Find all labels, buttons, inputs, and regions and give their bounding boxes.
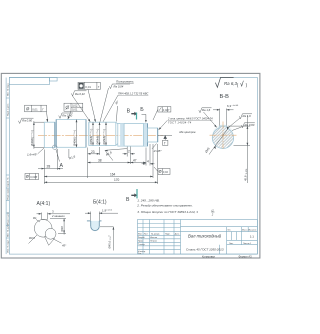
- runout frame bottom-right: [158, 169, 170, 175]
- svg-text:Г: Г: [164, 141, 166, 145]
- svg-text:Ra 0,80: Ra 0,80: [245, 123, 255, 127]
- svg-text:Инв. № дубл.: Инв. № дубл.: [6, 224, 9, 237]
- roughness mark Ra0,80 (left of S1): [18, 118, 33, 123]
- svg-text:Иванов: Иванов: [150, 237, 157, 239]
- svg-text:28: 28: [47, 164, 51, 168]
- datum flag G: [163, 135, 167, 139]
- centerline (main shaft axis): [38, 134, 163, 136]
- svg-text:Пров.: Пров.: [138, 241, 144, 243]
- svg-text:Вал тихоходный: Вал тихоходный: [188, 234, 222, 239]
- sheet outline (gray): [1, 73, 260, 258]
- technical requirements: [136, 198, 198, 214]
- chamfer band left on S4: [120, 124, 124, 147]
- roughness Ra1,6 (B-B right): [239, 114, 252, 119]
- general roughness (top-right corner): [215, 77, 233, 87]
- left margin strip: [5, 78, 7, 255]
- svg-text:1. 245...285 НВ.: 1. 245...285 НВ.: [137, 198, 159, 202]
- svg-text:Петров: Петров: [150, 241, 157, 243]
- left strip rotated labels: [6, 83, 9, 253]
- svg-text:Ø45,6₋₀,₂⁵: Ø45,6₋₀,₂⁵: [107, 235, 111, 248]
- svg-text:Подп.: Подп.: [165, 233, 171, 235]
- svg-text:2 отв. центр. А4/8,5 ГОСТ 1403: 2 отв. центр. А4/8,5 ГОСТ 14034-74: [167, 117, 213, 121]
- dim row 38 / 47: [88, 157, 146, 165]
- svg-text:Ra 0,80: Ra 0,80: [22, 119, 32, 123]
- tolerance frame B (cylindricity, S2): [64, 103, 83, 112]
- svg-text:1,9⁺⁰′⁰⁵: 1,9⁺⁰′⁰⁵: [102, 208, 113, 212]
- svg-text:Б: Б: [140, 107, 144, 113]
- svg-text:Копировал: Копировал: [202, 255, 215, 259]
- tolerance frame C (S3 top): [78, 82, 100, 89]
- svg-text:2. Резьбу обеспечивает инструм: 2. Резьбу обеспечивает инструмент.: [136, 203, 193, 207]
- chamfer transition S3/S4: [116, 122, 118, 124]
- dim 23 (row y153.8): [88, 147, 100, 178]
- detail B geometry (U-groove): [91, 221, 100, 231]
- svg-text:1:1: 1:1: [250, 234, 255, 238]
- B-B centerlines: [210, 134, 237, 136]
- svg-text:ПРН 40В 1,2 Т32 ГВ НВС: ПРН 40В 1,2 Т32 ГВ НВС: [118, 92, 148, 96]
- vertical dim 41,8 (B-B right): [228, 116, 250, 184]
- svg-text:170: 170: [114, 178, 120, 182]
- title block small header texts: [138, 229, 256, 255]
- svg-text:Масштаб: Масштаб: [249, 229, 257, 231]
- title block grid: [138, 220, 258, 255]
- dim 2 (groove B width): [123, 147, 136, 157]
- svg-text:164: 164: [110, 172, 116, 176]
- dim 164: [44, 144, 153, 178]
- diameter dim S2 (inside, rotated): [76, 120, 78, 148]
- svg-text:3. Общие допуски по ГОСТ 30893: 3. Общие допуски по ГОСТ 30893.1-h14, ±: [137, 210, 198, 214]
- svg-text:R1: R1: [33, 216, 37, 220]
- drawing frame (cyan inner border): [9, 78, 257, 255]
- svg-text:В: В: [126, 197, 130, 203]
- svg-text:2: 2: [128, 150, 130, 154]
- svg-text:Листов 1: Листов 1: [243, 243, 252, 245]
- svg-text:В: В: [127, 108, 131, 114]
- svg-text:Формат А3: Формат А3: [239, 255, 253, 259]
- detail A dims: [37, 213, 71, 220]
- svg-text:0,01: 0,01: [32, 107, 38, 111]
- svg-text:4: 4: [147, 160, 149, 164]
- shaft section S3: [89, 122, 116, 145]
- svg-text:Ra 1,6: Ra 1,6: [243, 114, 252, 118]
- svg-text:2 канавки: 2 канавки: [51, 214, 65, 218]
- roughness Ra0,80 (B-B lower right): [241, 123, 254, 128]
- tolerance frame D (right, S5): [158, 107, 171, 112]
- shaft step S4/S5: [147, 124, 149, 147]
- leader R1,6 (groove radius on S2): [68, 149, 70, 158]
- svg-text:Масса: Масса: [242, 229, 247, 231]
- svg-text:Инв. № подл.: Инв. № подл.: [6, 239, 9, 252]
- dim 170 (overall): [44, 144, 157, 184]
- svg-text:6,3⁻⁰′⁰⁹⁸: 6,3⁻⁰′⁰⁹⁸: [227, 104, 239, 108]
- svg-text:23: 23: [91, 150, 95, 154]
- dim 28 (below S1): [38, 149, 63, 170]
- detail A geometry (groove profile): [29, 220, 56, 246]
- svg-text:А: А: [60, 163, 64, 169]
- svg-text:Ra 0,04: Ra 0,04: [114, 84, 124, 88]
- svg-text:Ra 1,6: Ra 1,6: [202, 108, 211, 112]
- svg-text:Ø40k6(⁺⁰′⁰¹⁸): Ø40k6(⁺⁰′⁰¹⁸): [95, 129, 99, 145]
- svg-text:ГОСТ 14034-74: ГОСТ 14034-74: [168, 120, 192, 124]
- svg-text:В-В: В-В: [220, 94, 230, 100]
- svg-text:Перв. прим.: Перв. прим.: [7, 188, 9, 200]
- top-left stamp box: [9, 78, 49, 85]
- svg-text:Ra 0,32: Ra 0,32: [75, 92, 85, 96]
- svg-text:Подп. и дата: Подп. и дата: [7, 211, 9, 224]
- shaft section S5 (right end): [148, 128, 158, 142]
- diameter dim S1 (left, rotated): [34, 121, 44, 149]
- svg-text:Справ. №: Справ. №: [6, 177, 9, 187]
- roughness mark Ra0,32 with leader (S3): [71, 91, 86, 96]
- svg-text:R0,5: R0,5: [29, 236, 35, 240]
- svg-text:обе центров: обе центров: [179, 130, 196, 134]
- roughness Ra1,6 (B-B left): [199, 108, 212, 113]
- detail B dims: [85, 212, 118, 221]
- svg-text:Инв. № подл.: Инв. № подл.: [6, 83, 9, 96]
- B-B shaft cross-section circle with hatch: [210, 122, 237, 149]
- svg-text:Б(4:1): Б(4:1): [93, 199, 107, 205]
- svg-text:Т.контр.: Т.контр.: [138, 244, 146, 246]
- svg-text:Ø40k6(⁺⁰′⁰¹⁸): Ø40k6(⁺⁰′⁰¹⁸): [72, 130, 76, 146]
- svg-text:0,01: 0,01: [72, 108, 78, 112]
- diagonal diameter dim on B-B: [209, 127, 230, 155]
- shaft section S2: [56, 120, 86, 148]
- roughness mark Ra0,80 (S2 top): [59, 113, 73, 118]
- shaft section S4 (keyed): [118, 124, 148, 147]
- svg-text:0,01: 0,01: [85, 85, 91, 89]
- svg-text:38: 38: [98, 158, 102, 162]
- diameter dims S3 (rotated group): [93, 122, 106, 145]
- svg-text:Разраб.: Разраб.: [138, 237, 146, 239]
- svg-text:45,8₋₀,₀₃₉: 45,8₋₀,₀₃₉: [243, 169, 247, 181]
- detail balloon A circle: [53, 145, 57, 149]
- svg-text:Лит.: Лит.: [227, 229, 231, 231]
- svg-text:Ra 0,80: Ra 0,80: [62, 113, 72, 117]
- svg-text:Полировать: Полировать: [116, 80, 134, 84]
- svg-text:Ø38: Ø38: [60, 226, 64, 232]
- svg-text:А(4:1): А(4:1): [37, 201, 51, 207]
- tolerance frame A (radial runout, S1): [25, 105, 47, 112]
- shaft section S1 (left journal): [44, 122, 55, 147]
- dim 4 (keyway end): [142, 144, 155, 166]
- svg-text:Сталь 45 ГОСТ 1050-2013: Сталь 45 ГОСТ 1050-2013: [186, 248, 224, 252]
- svg-text:Ø30k6(⁺⁰′⁰¹⁵): Ø30k6(⁺⁰′⁰¹⁵): [30, 130, 34, 146]
- svg-text:Ra 6,3: Ra 6,3: [224, 81, 237, 86]
- shaft step S2/S3: [85, 120, 87, 148]
- svg-text:Лист: Лист: [229, 243, 233, 245]
- svg-text:47: 47: [133, 158, 137, 162]
- svg-text:Ø35k6(⁺⁰′⁰¹⁵): Ø35k6(⁺⁰′⁰¹⁵): [102, 129, 106, 145]
- svg-text:Утв.: Утв.: [138, 253, 142, 255]
- runout frame bottom-left: [25, 174, 39, 180]
- svg-text:0,02: 0,02: [163, 170, 169, 174]
- svg-text:Лист: Лист: [144, 233, 148, 235]
- svg-text:Изм: Изм: [138, 233, 142, 235]
- leader R1,6 (groove B radius): [105, 149, 127, 151]
- svg-text:№ докум.: № докум.: [151, 232, 160, 235]
- svg-text:Подп. и дата: Подп. и дата: [7, 103, 9, 116]
- keyway width dim 6,3: [213, 109, 234, 126]
- groove B band right on S4: [144, 124, 148, 147]
- svg-text:1,6×45°: 1,6×45°: [27, 153, 38, 157]
- svg-text:Ø45k6(⁺⁰′⁰¹⁸): Ø45k6(⁺⁰′⁰¹⁸): [89, 129, 93, 145]
